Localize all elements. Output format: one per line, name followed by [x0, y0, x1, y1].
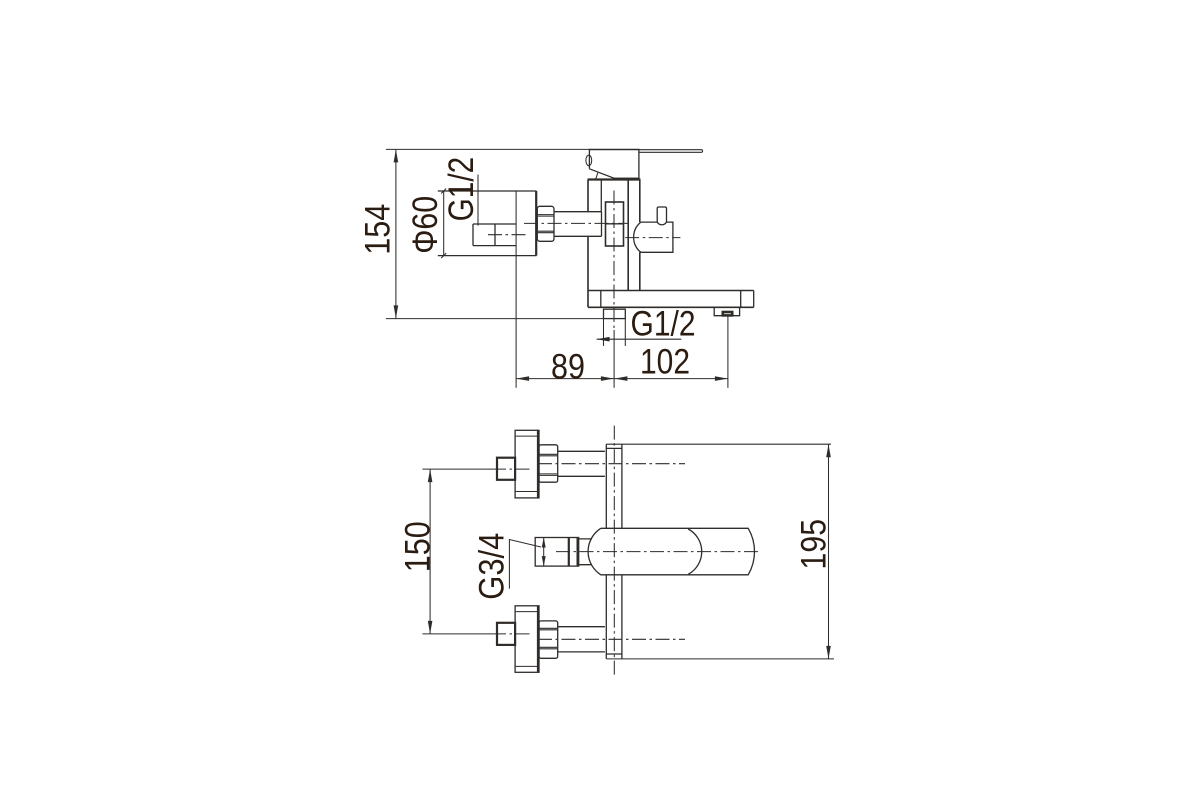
shower elbow [625, 207, 680, 252]
label G1/2 top [442, 157, 481, 226]
hex nut [537, 206, 554, 241]
top union nut [539, 445, 558, 482]
G3/4 connector [535, 538, 592, 567]
handle lever bar [639, 150, 703, 153]
wall flange [438, 189, 537, 259]
extension line 89 left [515, 191, 517, 388]
top union flange disc [515, 430, 539, 498]
bottom union nipple [497, 623, 515, 645]
label G1/2 bottom [597, 305, 696, 344]
inlet pipe [554, 212, 602, 237]
bottom union nut [539, 621, 558, 658]
bottom union flange disc [515, 606, 539, 673]
handle cap [586, 149, 639, 179]
main vertical centerline [613, 426, 615, 676]
svg-text:154: 154 [358, 204, 397, 255]
dimension 150 [398, 469, 437, 634]
dimension 89 [516, 348, 614, 387]
svg-text:G1/2: G1/2 [442, 157, 481, 222]
main horizontal centerline [524, 222, 628, 224]
svg-text:Φ60: Φ60 [406, 196, 445, 254]
top union centerlines [422, 464, 685, 469]
body stadium [588, 528, 754, 575]
body [588, 180, 641, 308]
svg-text:89: 89 [551, 348, 585, 387]
body centerline [556, 551, 760, 553]
svg-text:195: 195 [795, 519, 834, 570]
G3/4 dimension and label [473, 533, 546, 600]
svg-text:G1/2: G1/2 [631, 305, 696, 344]
wall socket G1/2 [473, 224, 528, 246]
dimension 154 [358, 149, 603, 318]
bottom union centerlines [422, 634, 685, 639]
bottom union pipe [558, 627, 605, 652]
body vertical centerline [613, 191, 615, 331]
svg-text:150: 150 [398, 521, 437, 572]
svg-text:G3/4: G3/4 [473, 533, 512, 600]
dimension 102 [614, 316, 728, 388]
spout [588, 291, 754, 308]
handshower outlet below body [604, 309, 626, 346]
cartridge [606, 202, 624, 246]
dimension 195 [606, 444, 834, 659]
svg-text:102: 102 [640, 343, 690, 382]
wall bar [606, 444, 622, 659]
top union pipe [558, 451, 605, 476]
top union nipple [497, 458, 515, 480]
spout end outlet [714, 308, 739, 316]
